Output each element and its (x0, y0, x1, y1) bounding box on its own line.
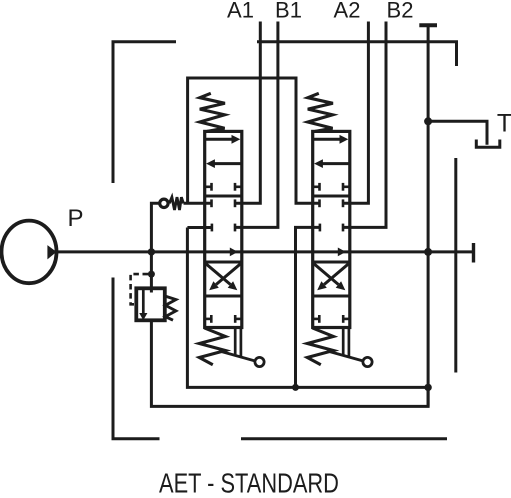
valve1 divider 1 (205, 194, 242, 197)
svg-text:AET - STANDARD: AET - STANDARD (159, 468, 339, 498)
junction dot pilot tap (148, 271, 155, 278)
wire port B2 (343, 22, 387, 228)
junction dot main/tank riser (424, 248, 432, 256)
valve2 port ticks row1 (313, 186, 320, 189)
valve2 spring bottom (307, 328, 333, 365)
wire port B1 (235, 22, 278, 228)
valve2 crossed arrows (314, 264, 338, 285)
junction dot return bus right (424, 384, 431, 391)
valve1 divider 2 (205, 260, 242, 263)
junction dot tank branch (424, 117, 432, 125)
wire branch to tank T (428, 121, 487, 145)
valve1 port ticks row1 (205, 186, 212, 189)
tank symbol T (476, 140, 500, 148)
valve2 lever knob (363, 357, 372, 366)
enclosure bottom line (241, 437, 447, 440)
svg-text:A2: A2 (334, 0, 361, 23)
valve1 spring bottom (199, 328, 225, 365)
plug cap on tank riser (419, 23, 437, 27)
svg-text:A1: A1 (227, 0, 254, 23)
svg-text:B2: B2 (387, 0, 414, 23)
valve2 lever stem (342, 328, 345, 356)
valve1 arrow right (pos1) (206, 138, 233, 141)
valve2 feed arrow (338, 248, 346, 257)
relief valve V1 pilot dashed line (131, 274, 148, 304)
valve2 divider 2 (313, 260, 350, 263)
enclosure right bracket (454, 158, 457, 373)
valve1 arrow left (pos1) (214, 162, 241, 165)
relief valve V1 supply stub (150, 252, 153, 293)
valve2 lever (329, 351, 363, 361)
valve section 2 (307, 93, 372, 366)
valve1 lever (221, 351, 255, 361)
svg-text:T: T (497, 110, 511, 138)
valve2 spring top (308, 93, 333, 131)
wire check riser (151, 203, 159, 252)
main line end bar (472, 243, 475, 263)
wire port A2 (343, 22, 369, 204)
valve2 port ticks row3 (319, 224, 322, 232)
valve1 port ticks row4 (205, 318, 212, 321)
valve2 port ticks row4 (313, 318, 320, 321)
junction dot return bus center (292, 384, 299, 391)
relief valve V1 spring (165, 296, 176, 320)
junction dot pump/riser (148, 248, 155, 255)
check valve spring (169, 197, 183, 210)
valve section 1 (199, 93, 264, 366)
valve1 envelope (205, 131, 242, 327)
enclosure bottom-left bracket (113, 278, 160, 439)
enclosure top-left bracket (113, 42, 176, 183)
wire carryover line (188, 78, 320, 203)
valve2 envelope (313, 131, 350, 327)
wire port A1 (235, 22, 261, 204)
relief valve V1 body (136, 288, 165, 320)
valve1 crossed arrows (206, 264, 230, 285)
relief valve V1 internal arrow (142, 290, 145, 314)
wire valve1 row3 left stub (187, 226, 212, 229)
valve1 lever stem (234, 328, 237, 356)
valve1 spring top (200, 93, 225, 131)
valve2 arrow right (pos1) (314, 138, 341, 141)
valve2 divider 1 (313, 194, 350, 197)
valve2 arrow left (pos1) (322, 162, 349, 165)
pump P outline (2, 221, 57, 284)
valve1 port ticks row2 (210, 199, 213, 207)
svg-text:P: P (67, 205, 83, 232)
wire tank riser T (427, 25, 430, 406)
check valve ball (160, 199, 168, 207)
wire return bus (187, 228, 428, 388)
valve1 lever knob (255, 357, 264, 366)
valve1 divider 3 (205, 294, 242, 297)
wire main pressure line (57, 250, 474, 253)
valve2 divider 3 (313, 294, 350, 297)
wire check to valve1 inlet (184, 202, 212, 205)
valve2 port ticks row2 (318, 199, 321, 207)
wire relief drain line (151, 320, 428, 406)
enclosure top line with right stub (257, 42, 457, 66)
valve1 port ticks row3 (211, 224, 214, 232)
valve1 feed arrow (230, 248, 238, 257)
pump P outlet triangle (47, 245, 56, 259)
svg-text:B1: B1 (275, 0, 302, 23)
wire valve2 return drop (296, 227, 320, 387)
